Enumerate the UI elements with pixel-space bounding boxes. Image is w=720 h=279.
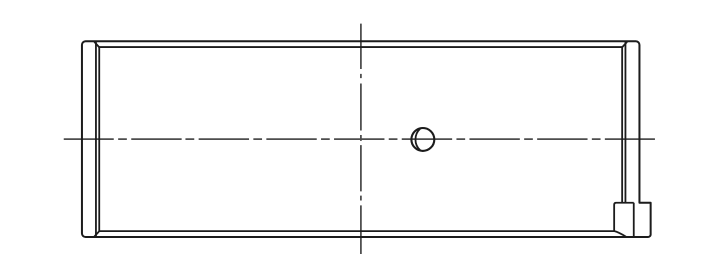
left parting face line 1	[95, 42, 97, 237]
bottom-left corner chamfer	[94, 231, 99, 237]
top-right corner chamfer	[622, 42, 627, 48]
top-left corner chamfer	[94, 42, 99, 48]
locating lug middle vertical	[633, 203, 635, 237]
locating lug left edge and top edge	[614, 203, 634, 231]
vertical centerline	[360, 24, 362, 254]
lug chamfer diagonal	[614, 231, 626, 237]
inner top edge (wall thickness line)	[99, 46, 622, 48]
oil hole circle	[411, 128, 434, 151]
right parting face line 2	[621, 47, 623, 202]
bearing shell outer outline with locating lug	[82, 41, 651, 237]
horizontal centerline	[64, 138, 655, 140]
oil hole chamfer crescent arc	[415, 129, 420, 151]
right parting face line 1	[624, 42, 626, 203]
left parting face line 2	[98, 47, 100, 231]
inner bottom edge (wall thickness line)	[99, 230, 614, 232]
